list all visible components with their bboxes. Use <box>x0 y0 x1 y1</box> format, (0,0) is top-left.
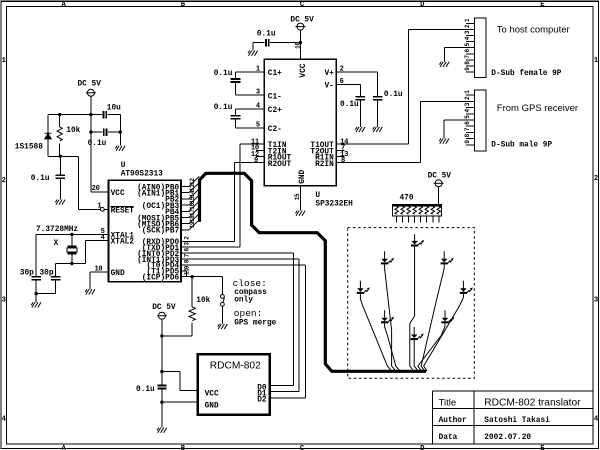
svg-text:V-: V- <box>324 82 333 90</box>
svg-text:0.1u: 0.1u <box>31 175 50 183</box>
svg-text:11: 11 <box>183 268 190 275</box>
svg-text:From GPS receiver: From GPS receiver <box>497 103 578 114</box>
svg-text:GND: GND <box>111 270 125 278</box>
svg-text:open:: open: <box>234 308 263 319</box>
svg-text:C2+: C2+ <box>268 107 282 115</box>
svg-text:470: 470 <box>400 195 414 203</box>
svg-text:Satoshi Takasi: Satoshi Takasi <box>484 417 550 425</box>
svg-text:U: U <box>121 162 126 170</box>
svg-text:RESET: RESET <box>111 208 135 216</box>
svg-text:7.3728MHz: 7.3728MHz <box>36 226 78 234</box>
svg-text:2: 2 <box>594 175 598 183</box>
svg-text:GND: GND <box>299 169 307 183</box>
svg-text:DC 5V: DC 5V <box>428 172 452 180</box>
svg-text:8: 8 <box>341 157 345 165</box>
svg-text:U: U <box>315 192 320 200</box>
svg-text:AT90S2313: AT90S2313 <box>121 170 163 178</box>
svg-text:GPS merge: GPS merge <box>234 320 276 328</box>
svg-text:1S1588: 1S1588 <box>15 143 43 151</box>
svg-text:VCC: VCC <box>205 390 219 398</box>
svg-text:10k: 10k <box>66 127 80 135</box>
svg-text:0.1u: 0.1u <box>214 70 233 78</box>
svg-text:(SCK)PB7: (SCK)PB7 <box>142 228 180 236</box>
svg-text:XTAL2: XTAL2 <box>111 239 135 247</box>
svg-text:0.1u: 0.1u <box>88 140 107 148</box>
svg-text:C1-: C1- <box>268 93 282 101</box>
svg-text:10k: 10k <box>196 297 210 305</box>
svg-text:3: 3 <box>2 297 6 305</box>
svg-text:DC 5V: DC 5V <box>78 80 102 88</box>
svg-text:10u: 10u <box>107 105 121 113</box>
svg-text:C2-: C2- <box>268 126 282 134</box>
svg-text:VCC: VCC <box>111 190 125 198</box>
svg-text:R2OUT: R2OUT <box>268 161 292 169</box>
svg-text:X: X <box>54 240 59 248</box>
svg-text:V+: V+ <box>324 70 334 78</box>
svg-text:2: 2 <box>2 177 6 185</box>
svg-text:30p: 30p <box>40 269 54 277</box>
svg-text:C1+: C1+ <box>268 70 282 78</box>
svg-text:RDCM-802: RDCM-802 <box>210 360 261 371</box>
svg-text:30p: 30p <box>20 269 34 277</box>
svg-text:0.1u: 0.1u <box>384 91 403 99</box>
svg-text:close:: close: <box>233 278 267 289</box>
svg-text:3: 3 <box>594 297 598 305</box>
svg-text:DC 5V: DC 5V <box>290 16 314 24</box>
svg-text:0.1u: 0.1u <box>257 30 276 38</box>
svg-text:0.1u: 0.1u <box>214 104 233 112</box>
svg-text:SP3232EH: SP3232EH <box>315 200 353 208</box>
svg-text:0.1u: 0.1u <box>340 101 359 109</box>
svg-text:2002.07.20: 2002.07.20 <box>484 434 531 442</box>
svg-text:DC 5V: DC 5V <box>152 304 176 312</box>
svg-text:D-Sub male 9P: D-Sub male 9P <box>491 141 552 149</box>
svg-text:Title: Title <box>439 397 457 408</box>
svg-text:(ICP)PD6: (ICP)PD6 <box>142 275 180 283</box>
svg-text:only: only <box>234 297 253 305</box>
svg-text:Author: Author <box>439 417 467 425</box>
svg-text:D2: D2 <box>257 397 267 405</box>
svg-text:R2IN: R2IN <box>315 161 334 169</box>
svg-text:0.1u: 0.1u <box>136 386 155 394</box>
svg-text:To host computer: To host computer <box>497 25 570 36</box>
svg-text:VCC: VCC <box>300 63 308 77</box>
svg-text:RDCM-802 translator: RDCM-802 translator <box>484 398 581 409</box>
svg-text:D-Sub female 9P: D-Sub female 9P <box>491 70 562 78</box>
svg-text:GND: GND <box>205 403 219 411</box>
svg-text:Data: Data <box>439 434 458 442</box>
svg-text:9: 9 <box>254 157 258 165</box>
